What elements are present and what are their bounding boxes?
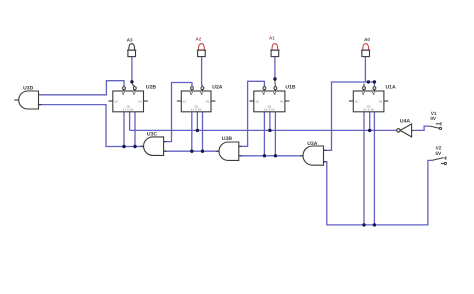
wire net Q3b: U2B top-left pin to U3D top input	[42, 81, 125, 95]
flip-flop U1A	[349, 84, 388, 112]
svg-text:2J 4 2K: 2J 4 2K	[123, 108, 134, 111]
node Q0 junction at U1A pin	[373, 80, 376, 83]
wire A2 jog to U2A top-right pin	[201, 84, 204, 86]
svg-text:1C: 1C	[114, 100, 118, 104]
wire U2A K pin drop	[202, 112, 204, 151]
node Q0 junction at A0	[367, 80, 370, 83]
svg-text:V2: V2	[436, 145, 442, 150]
flip-flop U2B	[108, 87, 147, 112]
svg-text:5V: 5V	[435, 151, 442, 156]
svg-text:A1: A1	[269, 36, 275, 41]
wire U1B CLK pin drop	[269, 112, 271, 131]
svg-text:U4A: U4A	[400, 119, 411, 125]
svg-text:U1B: U1B	[285, 85, 296, 91]
AND gate U3D	[14, 91, 41, 109]
wire U2A J pin drop	[191, 112, 193, 151]
probe A0	[361, 44, 370, 57]
svg-text:A0: A0	[364, 37, 370, 42]
svg-text:0V: 0V	[430, 116, 437, 121]
node U1B K junction	[274, 154, 277, 157]
node U2A J junction	[190, 150, 193, 153]
svg-text:U2A: U2A	[212, 84, 223, 90]
svg-text:A3: A3	[127, 37, 133, 42]
wire net CLK: clock bus from U2B to U4A output	[130, 129, 397, 131]
wire U2B CLK pin drop	[129, 112, 131, 131]
switch source V1	[429, 122, 441, 129]
wire probe A3 stem	[131, 57, 133, 82]
node U2A K junction	[201, 150, 204, 153]
wire U2B J pin drop	[123, 112, 125, 147]
svg-text:1C: 1C	[255, 100, 259, 104]
node U2A CLK junction	[196, 129, 199, 132]
flip-flop U1B	[249, 87, 289, 112]
wire net Q0: U1A top-right pin to U3A top input	[324, 82, 375, 150]
svg-text:P1: P1	[139, 100, 143, 104]
AND gate U3B	[216, 142, 242, 160]
svg-text:U2B: U2B	[146, 84, 157, 90]
wire U2A CLK pin drop	[196, 112, 198, 131]
wire U1A CLK pin drop	[369, 112, 371, 131]
flip-flop U2A	[177, 87, 216, 112]
wire A3 jog to U2B top-right pin	[132, 82, 135, 87]
node U2B K junction	[133, 145, 136, 148]
svg-text:U3C: U3C	[147, 132, 158, 138]
AND gate U3C	[141, 137, 167, 156]
svg-text:U3A: U3A	[307, 141, 318, 147]
wire net T3: U3C output to U3D bottom input	[39, 105, 145, 147]
wire probe A2 stem	[201, 57, 203, 85]
wire U1A top-right pin riser	[373, 82, 375, 86]
svg-text:1C: 1C	[183, 100, 187, 104]
svg-text:2J 4 2K: 2J 4 2K	[363, 108, 374, 111]
node U2B J junction	[122, 145, 125, 148]
node A1/Q1 junction	[273, 77, 276, 80]
node U1B CLK junction	[268, 129, 271, 132]
wire U1B K pin drop	[274, 112, 276, 156]
svg-text:2J 4 2K: 2J 4 2K	[191, 108, 202, 111]
wire probe A1 stem	[274, 57, 276, 79]
svg-text:P1: P1	[206, 100, 210, 104]
wire net Q2b: U2A top-left pin to U3C top input	[164, 83, 192, 142]
switch source V2	[432, 156, 447, 164]
svg-text:U3B: U3B	[222, 136, 233, 142]
wire U2B K pin drop	[134, 112, 136, 147]
wire net 5V rail: U3A bottom input down and across to V2	[324, 160, 432, 225]
inverter U4A	[397, 124, 414, 137]
svg-text:P1: P1	[280, 100, 284, 104]
probe A2	[197, 44, 206, 57]
wire net Q1b: U1B top-left pin to U3B top input	[239, 81, 265, 146]
WIRES_START	[39, 57, 432, 225]
svg-text:U3D: U3D	[23, 85, 34, 91]
svg-text:U1A: U1A	[386, 85, 397, 91]
node U1B J junction	[263, 154, 266, 157]
wire probe A0 stem	[364, 57, 366, 82]
wire A1 jog to U1B top-right pin	[274, 79, 277, 86]
node A3/Q3 junction	[130, 80, 133, 83]
svg-text:2J 4 2K: 2J 4 2K	[264, 108, 275, 111]
svg-text:1C: 1C	[355, 100, 359, 104]
wire U4A input to V1	[414, 126, 430, 130]
wire net T1: U3A output to U3B bottom input	[239, 155, 303, 157]
wire net T2: U3B output to U3C bottom input	[164, 150, 219, 152]
wire U1B J pin drop	[263, 112, 265, 156]
wire U1A J pin drop	[363, 112, 365, 225]
probe A1	[270, 44, 279, 57]
AND gate U3A	[300, 146, 327, 165]
svg-text:A2: A2	[196, 37, 202, 42]
probe A3	[127, 44, 136, 57]
wire U1A K pin drop	[373, 112, 375, 225]
node U1A K junction on 5V rail	[373, 223, 376, 226]
node U1A CLK junction	[368, 129, 371, 132]
node U1A J junction on 5V rail	[362, 223, 365, 226]
svg-text:P1: P1	[379, 100, 383, 104]
